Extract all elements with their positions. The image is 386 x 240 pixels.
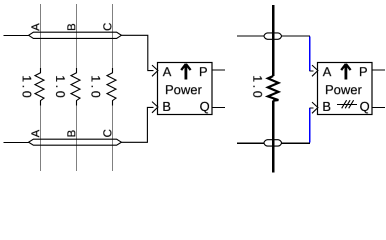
- svg-text:B: B: [66, 23, 78, 31]
- op block U2 Power: [318, 63, 373, 115]
- wire into U2 pin B: [310, 107, 314, 109]
- svg-text:A: A: [30, 23, 42, 31]
- net line C (gray vertical): [112, 4, 114, 171]
- svg-text:C: C: [102, 23, 114, 31]
- pin B chevron U1: [152, 102, 158, 113]
- svg-text:B: B: [162, 99, 171, 114]
- svg-text:1.0: 1.0: [20, 75, 34, 100]
- svg-text:B: B: [66, 129, 78, 137]
- bus width marker (U2, line with 3 slashes): [337, 100, 357, 108]
- svg-text:A: A: [323, 64, 332, 79]
- svg-text:C: C: [102, 129, 114, 137]
- pin A chevron U2: [312, 65, 318, 76]
- pin Q stub U2: [372, 106, 385, 108]
- pin P stub U2: [372, 69, 385, 71]
- bus tap ellipse (top): [264, 33, 282, 39]
- bus BUS2 (bottom multiplexer body): [29, 139, 122, 145]
- net line A (gray vertical): [40, 4, 42, 171]
- svg-text:A: A: [30, 129, 42, 137]
- wire bus1 to U1 pin A: [121, 35, 153, 70]
- svg-text:Q: Q: [200, 99, 210, 114]
- op block U1 Power: [158, 63, 213, 115]
- resistor R2: [71, 68, 80, 106]
- up arrow icon U1: [181, 64, 190, 80]
- pin Q stub U1: [212, 106, 225, 108]
- thick bus wire (right, vertical): [272, 5, 274, 173]
- svg-text:P: P: [359, 64, 368, 79]
- wire into U2 pin A: [310, 70, 314, 72]
- bus BUS1 (top multiplexer body): [29, 32, 122, 38]
- wire left stub into bottom tap: [237, 142, 264, 144]
- svg-text:Power: Power: [325, 82, 363, 97]
- wire tap to corner (bottom): [282, 142, 311, 144]
- svg-text:P: P: [199, 64, 208, 79]
- wire left into top bus: [4, 34, 29, 36]
- resistor R3: [107, 68, 116, 106]
- wire tap to corner (top): [282, 35, 311, 37]
- net line B (gray vertical): [76, 4, 78, 171]
- svg-text:Power: Power: [165, 82, 203, 97]
- resistor R4 (thick): [268, 76, 279, 101]
- pin B chevron U2: [312, 102, 318, 113]
- pin A chevron U1: [152, 65, 158, 76]
- svg-text:A: A: [163, 64, 172, 79]
- blue wire up to U2 pin B: [309, 108, 311, 143]
- svg-text:B: B: [322, 99, 331, 114]
- svg-text:1.0: 1.0: [89, 75, 103, 100]
- bus tap ellipse (bottom): [264, 140, 282, 146]
- wire left stub into top tap: [237, 35, 264, 37]
- resistor R1: [35, 68, 44, 106]
- svg-text:1.0: 1.0: [53, 75, 67, 100]
- wire bus2 to U1 pin B: [121, 107, 153, 142]
- pin P stub U1: [212, 69, 225, 71]
- svg-text:Q: Q: [360, 99, 370, 114]
- up arrow icon U2: [341, 64, 350, 80]
- blue wire down to U2 pin A: [309, 37, 311, 71]
- wire left into bottom bus: [4, 141, 29, 143]
- svg-text:1.0: 1.0: [250, 75, 264, 100]
